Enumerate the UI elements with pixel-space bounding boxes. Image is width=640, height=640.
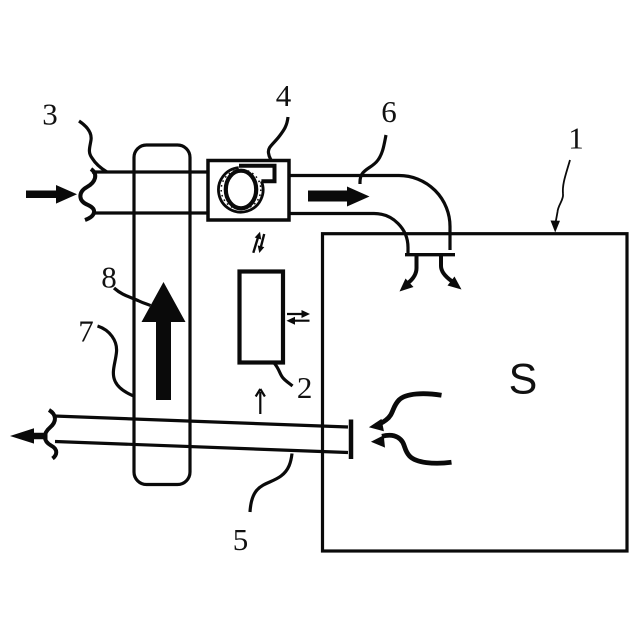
- suction flow arrow lower: [371, 435, 452, 463]
- mode arrows near blower (up/down): [253, 232, 264, 253]
- bold flow arrow 6: [308, 187, 370, 207]
- exchange arrows (right of component 2): [287, 310, 311, 325]
- svg-text:2: 2: [297, 370, 313, 405]
- svg-text:3: 3: [42, 97, 58, 132]
- blower volute casing: [218, 166, 274, 212]
- leader line 8: [114, 288, 151, 306]
- svg-text:4: 4: [276, 78, 292, 113]
- svg-text:7: 7: [78, 314, 94, 349]
- outlet pipe 6 bottom line with bend: [289, 214, 408, 256]
- leader line 1: [551, 160, 571, 233]
- svg-text:S: S: [509, 356, 538, 404]
- label 3: [42, 97, 58, 132]
- nozzle flange: [405, 253, 455, 256]
- outlet pipe 6 top line with bend: [289, 176, 450, 251]
- inlet pipe 3 top line: [92, 170, 208, 173]
- blower box 4: [208, 161, 289, 221]
- svg-text:1: 1: [568, 121, 584, 156]
- leader line 3: [79, 121, 107, 172]
- pipe 5 end cap: [349, 420, 354, 460]
- leader line 4: [268, 117, 288, 160]
- duct 7 (rounded rectangle): [134, 145, 190, 485]
- label 8: [101, 260, 117, 295]
- blower stipple ring: [221, 170, 261, 210]
- label 1: [568, 121, 584, 156]
- nozzle spray arrow left: [400, 256, 417, 292]
- bold up arrow 8: [142, 282, 186, 400]
- label 6: [381, 94, 397, 129]
- svg-text:6: 6: [381, 94, 397, 129]
- pipe 5 break squiggle: [45, 410, 56, 459]
- svg-text:5: 5: [233, 522, 249, 557]
- tank box 1: [323, 234, 628, 551]
- nozzle spray arrow right: [441, 256, 462, 290]
- leader line 2: [275, 364, 293, 387]
- leader line 7: [98, 326, 136, 397]
- label 7: [78, 314, 94, 349]
- pipe 3 break squiggle: [80, 169, 95, 220]
- inlet pipe 3 bottom line: [94, 211, 208, 214]
- small up arrow under component 2: [256, 389, 265, 414]
- leader line 5: [250, 454, 292, 513]
- leader line 6: [360, 135, 386, 184]
- bold inlet arrow: [26, 185, 77, 204]
- label S: [509, 356, 538, 404]
- drain pipe 5 top line: [54, 416, 348, 427]
- bold outlet arrow (left): [10, 428, 48, 443]
- label 4: [276, 78, 292, 113]
- component 2 rectangle: [240, 272, 284, 363]
- drain pipe 5 bottom line: [55, 442, 348, 453]
- blower impeller circle: [226, 171, 256, 209]
- suction flow arrow upper: [369, 394, 442, 432]
- label 2: [297, 370, 313, 405]
- label 5: [233, 522, 249, 557]
